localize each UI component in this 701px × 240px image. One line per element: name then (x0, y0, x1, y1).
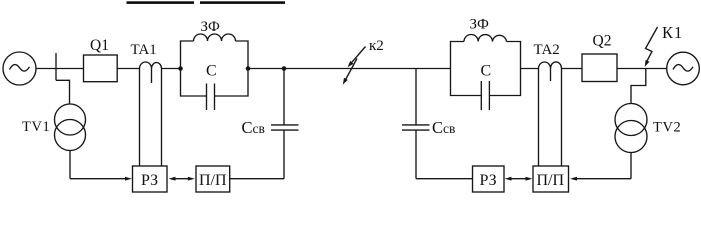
relay protection box RZ1 (133, 166, 168, 192)
voltage transformer TV2 (615, 104, 647, 153)
svg-text:Ссв: Ссв (432, 118, 455, 137)
svg-text:РЗ: РЗ (141, 172, 158, 189)
svg-text:C: C (206, 63, 217, 80)
svg-text:Ссв: Ссв (242, 118, 265, 137)
svg-text:TA1: TA1 (131, 42, 157, 58)
line wire trap1 to trap2 (transmission line) (248, 68, 451, 70)
top text underline bar 2 (200, 1, 285, 4)
wire gen1 to Q1 (36, 68, 84, 70)
wire TA1 to line trap 1 (162, 68, 181, 70)
junction node dot left of trap 1 (178, 66, 183, 71)
breaker Q1 (84, 55, 118, 82)
coupling capacitor Csv1 branch (230, 69, 299, 179)
breaker Q2 (582, 54, 617, 82)
wire bus to TV1 (56, 80, 70, 104)
wire K1 node to TV2 (631, 69, 646, 105)
generator G2 (right system source) (667, 52, 700, 85)
fault marker K1 (645, 27, 658, 67)
wire TV1 to RZ1 with arrow (70, 177, 132, 181)
wire Q1 to TA1 (117, 68, 139, 70)
double arrow RZ1 - PP1 (169, 177, 195, 181)
svg-text:к2: к2 (369, 38, 384, 54)
wire TA2 to Q2 (562, 68, 583, 70)
svg-text:TA2: TA2 (534, 42, 560, 58)
svg-text:Q2: Q2 (593, 33, 612, 50)
wire Q2 to generator G2 (617, 68, 667, 70)
top text underline bar 1 (127, 1, 195, 4)
svg-text:ЗФ: ЗФ (470, 17, 490, 33)
svg-text:П/П: П/П (537, 172, 565, 189)
coupling capacitor Csv2 branch (402, 69, 473, 179)
voltage transformer TV1 (55, 104, 86, 151)
current transformer TA2 (539, 62, 562, 166)
bus tick (left busbar) (55, 53, 57, 80)
wire TV2 down to PP2 with arrow (570, 153, 631, 181)
svg-text:ЗФ: ЗФ (201, 19, 221, 35)
svg-text:К1: К1 (662, 23, 683, 42)
wire TV1 down (69, 151, 71, 179)
wire trap2 to TA2 (521, 68, 539, 70)
current transformer TA1 (140, 62, 162, 166)
svg-text:TV1: TV1 (22, 119, 50, 135)
fault marker k2 on line (343, 47, 366, 85)
line trap ZF1 (parallel LC loop) (181, 34, 249, 110)
relay protection box RZ2 (473, 166, 505, 192)
junction node dot coupling cap 1 (282, 66, 287, 71)
generator G1 (left system source) (3, 52, 36, 85)
svg-text:TV2: TV2 (653, 120, 681, 136)
HF transceiver box PP1 (196, 166, 230, 192)
svg-text:РЗ: РЗ (480, 172, 497, 189)
junction node dot right of trap 1 (246, 66, 251, 71)
double arrow RZ2 - PP2 (505, 177, 533, 181)
svg-text:C: C (481, 63, 492, 80)
svg-text:П/П: П/П (199, 172, 227, 189)
svg-text:Q1: Q1 (90, 37, 109, 54)
HF transceiver box PP2 (533, 166, 569, 192)
line trap ZF2 (parallel LC loop) (451, 34, 521, 110)
